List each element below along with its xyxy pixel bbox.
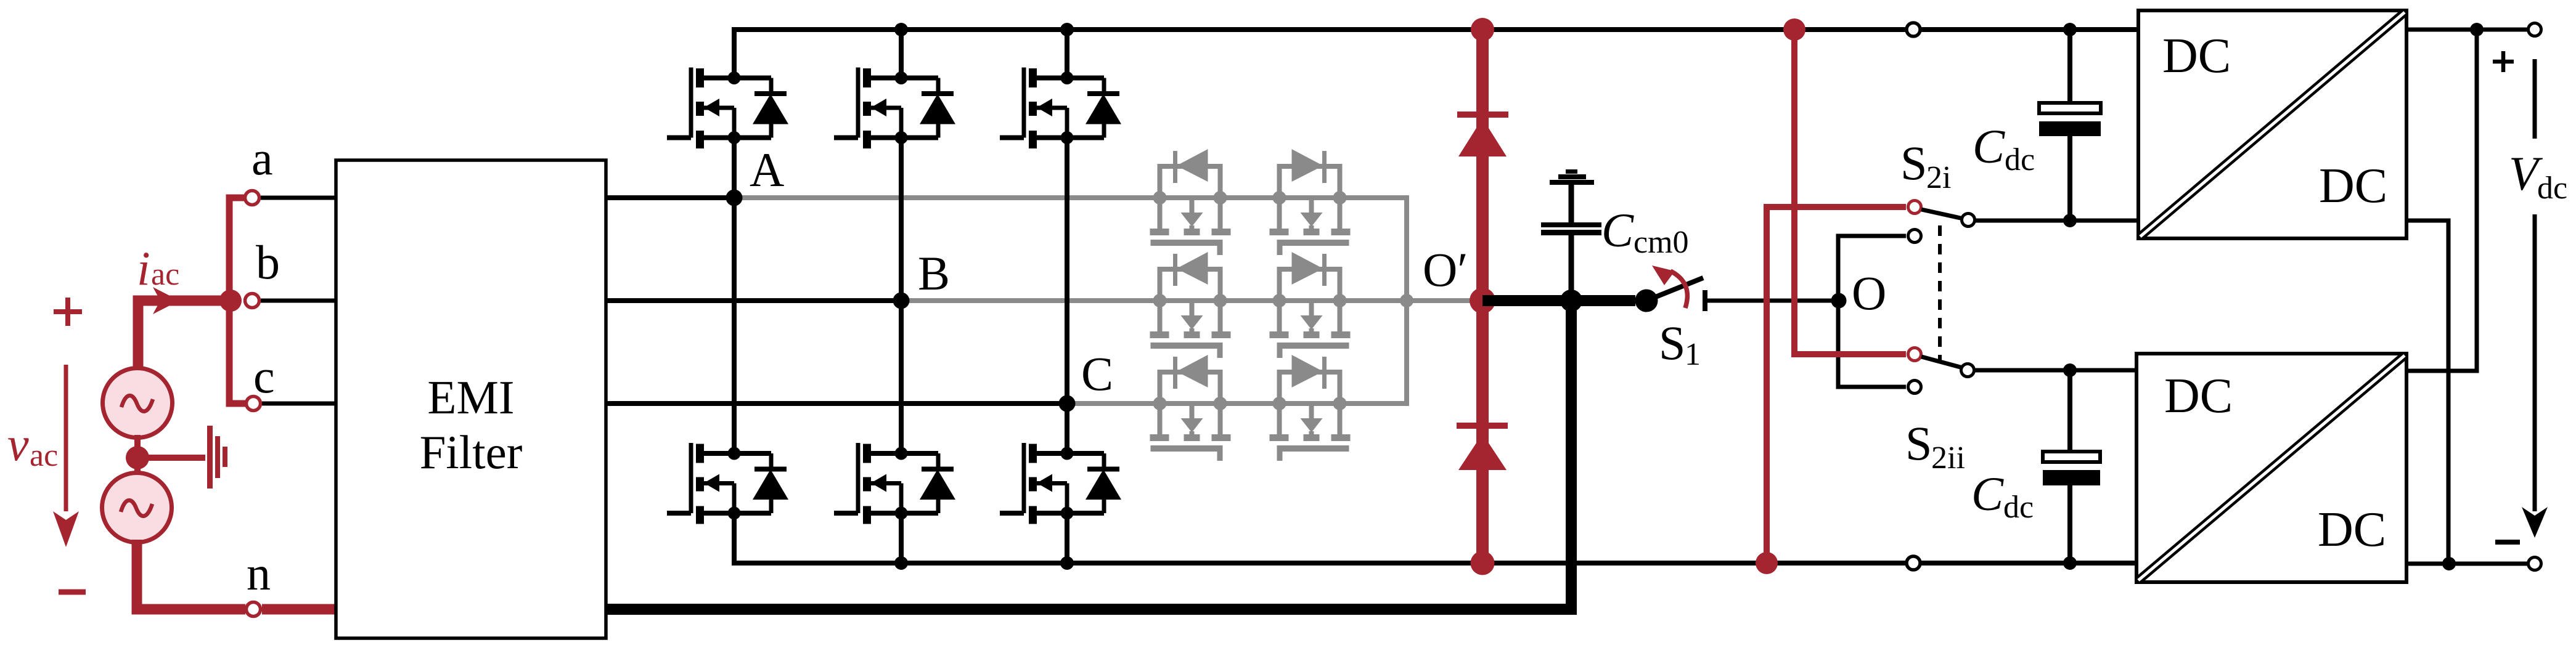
svg-text:i: i bbox=[137, 241, 150, 295]
wire leg A lower bbox=[732, 198, 737, 563]
wire red rail to S2ii bbox=[1794, 30, 1906, 354]
switch S1 blade bbox=[1646, 278, 1703, 301]
node Cdc upper tap dot bbox=[2063, 214, 2077, 227]
node red top rail dot bbox=[1783, 18, 1805, 41]
node C dot bbox=[1059, 395, 1076, 412]
current arrow i_ac bbox=[153, 287, 179, 314]
label n bbox=[247, 546, 271, 600]
node diode top dot bbox=[1471, 18, 1494, 41]
svg-text:DC: DC bbox=[2164, 369, 2233, 423]
terminal plus bbox=[2529, 23, 2541, 36]
svg-text:DC: DC bbox=[2319, 159, 2387, 213]
label C_dc lower bbox=[1971, 467, 2034, 525]
svg-text:n: n bbox=[247, 546, 271, 600]
dc-dc converter lower bbox=[2136, 354, 2406, 582]
svg-text:2ii: 2ii bbox=[1931, 440, 1965, 476]
svg-text:EMI: EMI bbox=[427, 371, 514, 424]
node O dot bbox=[1831, 293, 1847, 309]
svg-text:Filter: Filter bbox=[420, 426, 523, 479]
svg-text:dc: dc bbox=[2003, 490, 2034, 525]
wire leg B upper bbox=[899, 30, 904, 301]
wire red rail to S2i bbox=[1767, 207, 1906, 563]
bidir switch M1b bbox=[1270, 149, 1351, 255]
svg-text:B: B bbox=[918, 246, 950, 300]
wire leg B lower bbox=[899, 301, 904, 563]
node rail dot C+ bbox=[1060, 23, 1074, 36]
wire phase a bbox=[606, 195, 734, 200]
wire phase c bbox=[606, 401, 1067, 406]
ac source V1 bbox=[103, 368, 173, 438]
switch S2i blade bbox=[1921, 209, 1963, 219]
node junction dot b bbox=[219, 290, 242, 312]
terminal a bbox=[245, 191, 260, 205]
label v_ac bbox=[7, 417, 58, 473]
switch S1 arrow bbox=[1652, 266, 1687, 308]
svg-text:1: 1 bbox=[1685, 337, 1701, 372]
svg-text:DC: DC bbox=[2318, 503, 2386, 557]
switch S2ii contact red bbox=[1908, 348, 1921, 361]
wire minus output bbox=[2406, 562, 2529, 566]
mosfet T_C+ upper bbox=[1000, 68, 1121, 149]
svg-text:DC: DC bbox=[2162, 29, 2231, 83]
terminal bottom rail bbox=[1907, 556, 1920, 570]
label c bbox=[253, 349, 275, 403]
node Cdc lower tap dot bbox=[2063, 363, 2077, 377]
label - (source negative) bbox=[59, 590, 86, 595]
svg-text:O: O bbox=[1852, 266, 1886, 320]
gray bus line row A bbox=[734, 198, 1407, 403]
mechanical link dashed bbox=[1938, 225, 1942, 360]
switch S2i common bbox=[1962, 214, 1975, 227]
node O' dot bbox=[1470, 288, 1495, 314]
wire ground stub bbox=[143, 455, 205, 461]
capacitor C_cm0 bbox=[1541, 169, 1601, 301]
node Cdc+ rail dot bbox=[2063, 23, 2077, 36]
wire diode leg bbox=[1476, 30, 1489, 563]
label S1 bbox=[1659, 316, 1701, 372]
node rail dot C- bbox=[1060, 556, 1074, 570]
node rail dot B- bbox=[894, 556, 908, 570]
svg-text:C: C bbox=[1081, 347, 1113, 400]
wire S1 to O bbox=[1707, 299, 1839, 303]
svg-text:ac: ac bbox=[30, 438, 58, 473]
bidir switch M2a bbox=[1150, 252, 1231, 358]
svg-text:a: a bbox=[251, 131, 273, 185]
wire lower box to plus bbox=[2406, 30, 2477, 371]
terminal minus bbox=[2529, 558, 2541, 570]
svg-text:b: b bbox=[256, 235, 280, 289]
wire O' to S1 (thick) bbox=[1482, 295, 1635, 306]
switch S2ii common bbox=[1961, 364, 1974, 377]
wire leg C lower bbox=[1065, 403, 1069, 563]
label C_cm0 bbox=[1601, 203, 1689, 260]
switch S2ii blade bbox=[1921, 357, 1963, 368]
label B bbox=[918, 246, 950, 300]
wire source bottom lead bbox=[137, 540, 245, 609]
label a bbox=[251, 131, 273, 185]
label A bbox=[750, 143, 784, 197]
svg-text:S: S bbox=[1905, 416, 1932, 470]
label C_dc upper bbox=[1973, 120, 2035, 177]
wire O selector bbox=[1838, 236, 1906, 387]
wire upper box lower out bbox=[2406, 221, 2448, 564]
node A dot bbox=[726, 190, 743, 206]
label i_ac bbox=[137, 241, 179, 295]
bidir switch M1a bbox=[1150, 149, 1231, 255]
diode D+ (upper) bbox=[1457, 112, 1508, 156]
bidir switch M3b bbox=[1270, 355, 1351, 461]
wire positive rail bbox=[734, 30, 2138, 78]
label b bbox=[256, 235, 280, 289]
node minus junction dot bbox=[2442, 557, 2456, 570]
terminal top rail bbox=[1907, 23, 1920, 36]
node B dot bbox=[893, 293, 910, 309]
switch S2i contact black bbox=[1908, 230, 1921, 243]
gray bus line row B bbox=[901, 298, 1482, 303]
label + (output) bbox=[2493, 51, 2514, 72]
node diode bottom dot bbox=[1471, 551, 1495, 575]
label V_dc bbox=[2509, 147, 2567, 206]
svg-text:2i: 2i bbox=[1926, 160, 1951, 195]
wire source top lead bbox=[138, 301, 231, 370]
svg-text:dc: dc bbox=[2005, 142, 2035, 177]
mosfet T_B- lower bbox=[834, 443, 955, 524]
label S2ii bbox=[1905, 416, 1965, 476]
label C bbox=[1081, 347, 1113, 400]
wire negative rail bbox=[734, 514, 2136, 563]
wire c to EMI bbox=[262, 402, 338, 406]
node midpoint dot bbox=[126, 446, 149, 469]
switch S2i contact red bbox=[1908, 201, 1921, 214]
svg-text:O′: O′ bbox=[1423, 243, 1468, 296]
svg-text:ac: ac bbox=[151, 257, 179, 292]
terminal b bbox=[245, 294, 260, 308]
node red bottom rail dot bbox=[1756, 552, 1778, 574]
label - (output) bbox=[2495, 540, 2520, 545]
label O bbox=[1852, 266, 1886, 320]
label S2i bbox=[1900, 136, 1951, 195]
ac source V2 bbox=[102, 473, 172, 543]
mosfet T_B+ upper bbox=[834, 68, 955, 149]
wire S2ii to Cdc bbox=[1975, 368, 2136, 373]
svg-text:C: C bbox=[1971, 467, 2004, 521]
voltage arrow V_dc bbox=[2522, 59, 2548, 538]
bidir switch M2b bbox=[1270, 252, 1351, 358]
switch S1 throw contact bbox=[1703, 290, 1707, 311]
svg-text:S: S bbox=[1659, 316, 1685, 370]
wire b to EMI bbox=[261, 299, 338, 303]
svg-text:A: A bbox=[750, 143, 784, 197]
svg-text:C: C bbox=[1601, 203, 1634, 257]
diode D- (lower) bbox=[1457, 423, 1508, 470]
dc-dc converter upper bbox=[2138, 10, 2406, 238]
label + (source positive) bbox=[54, 298, 82, 326]
terminal c bbox=[247, 397, 261, 411]
switch S1 pole dot bbox=[1635, 290, 1658, 312]
wire n to EMI bbox=[262, 604, 338, 615]
switch S2ii contact black bbox=[1908, 381, 1921, 394]
wire phase b bbox=[606, 298, 901, 303]
svg-text:dc: dc bbox=[2537, 171, 2567, 206]
wire leg A upper bbox=[732, 30, 737, 198]
svg-text:C: C bbox=[1973, 120, 2005, 173]
wire S2i to Cdc bbox=[1976, 219, 2138, 223]
svg-text:v: v bbox=[7, 417, 29, 471]
ground (chassis) at source bbox=[207, 426, 227, 489]
capacitor C_dc lower bbox=[2043, 370, 2100, 563]
wire leg C upper bbox=[1065, 30, 1069, 403]
mosfet T_C- lower bbox=[1000, 443, 1121, 524]
capacitor C_dc upper bbox=[2039, 30, 2101, 221]
bidir switch M3a bbox=[1150, 355, 1231, 461]
node plus junction dot bbox=[2470, 23, 2484, 36]
wire n return (thick) bbox=[606, 301, 1571, 609]
svg-text:cm0: cm0 bbox=[1634, 225, 1689, 260]
wire between sources bbox=[134, 435, 141, 476]
node Ccm0 tap dot bbox=[1560, 290, 1582, 312]
gray bus node dot bbox=[1400, 294, 1413, 307]
wire plus output bbox=[2406, 28, 2529, 32]
voltage arrow v_ac bbox=[53, 365, 79, 547]
mosfet T_A- lower bbox=[667, 443, 788, 524]
svg-text:c: c bbox=[253, 349, 275, 403]
node Cdc- rail dot bbox=[2063, 556, 2077, 570]
wire branch to a and c bbox=[229, 198, 245, 403]
EMI filter box bbox=[336, 160, 606, 638]
node rail dot B+ bbox=[894, 23, 908, 36]
label O' bbox=[1423, 243, 1468, 296]
mosfet T_A+ upper bbox=[667, 68, 788, 149]
wire a to EMI bbox=[261, 196, 338, 200]
svg-text:S: S bbox=[1900, 136, 1927, 190]
terminal n bbox=[247, 602, 261, 617]
